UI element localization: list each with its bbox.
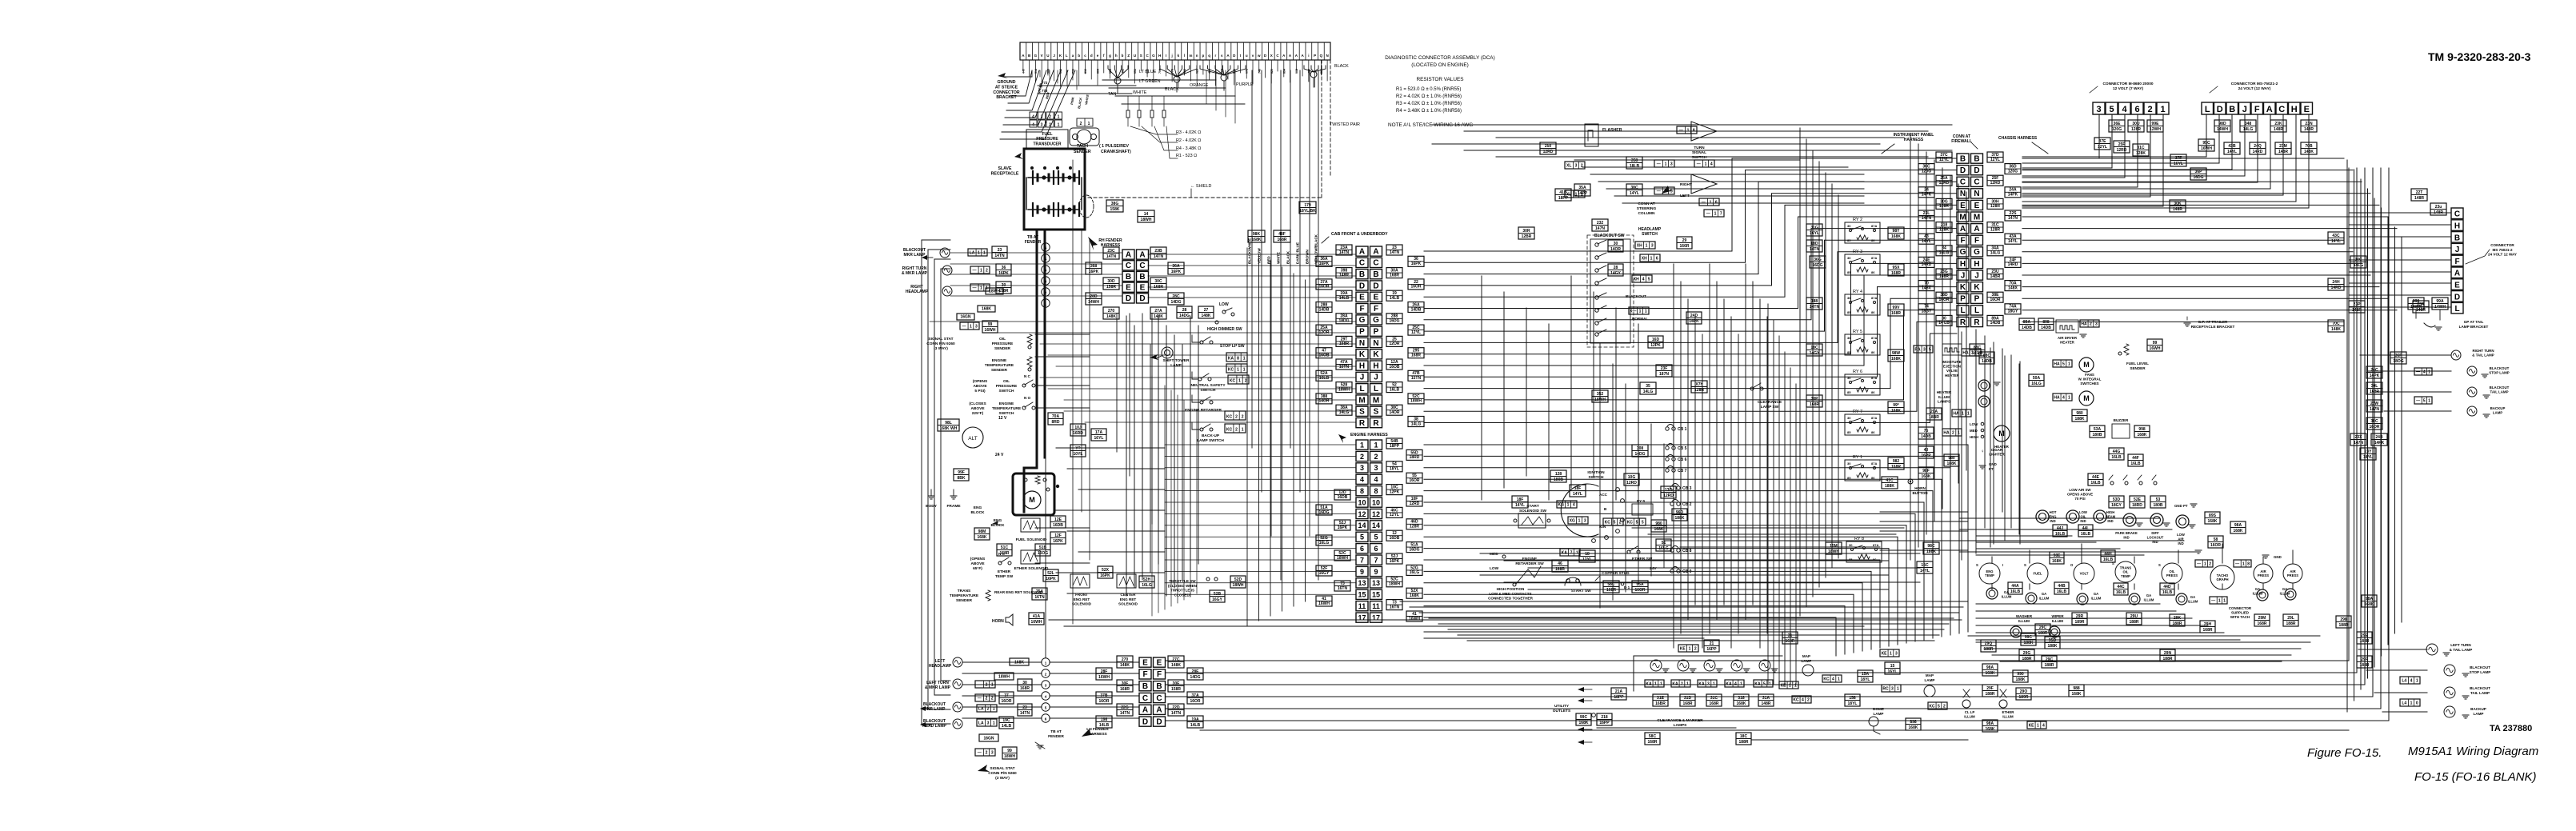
wire 58 box [2208, 536, 2223, 548]
connector XL 3 2 [1565, 162, 1585, 169]
svg-text:168R: 168R [1810, 402, 1819, 407]
gauge air press 2 [2283, 564, 2302, 583]
svg-text:308: 308 [1637, 446, 1644, 451]
wire bundle: indicator feeds [1976, 529, 2048, 530]
svg-text:18LB: 18LB [1630, 164, 1640, 169]
svg-text:29: 29 [1682, 238, 1687, 243]
value boxes right of engine columns [1386, 438, 1402, 449]
svg-text:CL LP: CL LP [1965, 710, 1975, 714]
svg-text:HOT: HOT [2050, 510, 2057, 514]
connector KE 1 2 [1678, 645, 1698, 652]
svg-text:GP AT TAIL: GP AT TAIL [2464, 320, 2484, 324]
svg-text:4: 4 [1642, 277, 1645, 282]
svg-text:1: 1 [1243, 356, 1246, 361]
svg-text:96D: 96D [1676, 510, 1684, 515]
svg-text:99A: 99A [2436, 299, 2444, 304]
front eng ret solenoid [1070, 574, 1090, 588]
svg-text:RY 6: RY 6 [1853, 370, 1862, 374]
svg-text:52L: 52L [1047, 571, 1054, 576]
wire bundle: firewall device verticals [1961, 332, 1962, 560]
wire 29C box 2 [2035, 624, 2050, 636]
svg-text:L: L [1066, 54, 1068, 58]
svg-text:KC: KC [1228, 367, 1234, 372]
svg-text:24H: 24H [2332, 280, 2340, 285]
svg-text:14GY: 14GY [1610, 271, 1621, 276]
svg-text:43C: 43C [2332, 234, 2340, 238]
svg-text:RY 2: RY 2 [1853, 218, 1862, 222]
svg-text:1: 1 [1242, 427, 1244, 432]
svg-text:5: 5 [2062, 362, 2065, 366]
svg-text:1: 1 [2037, 723, 2039, 728]
svg-text:1: 1 [1689, 646, 1691, 651]
svg-text:A: A [1139, 250, 1145, 259]
wire 88C box [1970, 344, 1985, 356]
svg-text:R2 - 4.02K Ω: R2 - 4.02K Ω [1176, 138, 1201, 143]
svg-text:D 1: D 1 [1624, 585, 1630, 589]
svg-text:RA: RA [1914, 347, 1921, 352]
svg-text:LEFT TURN: LEFT TURN [926, 681, 949, 685]
svg-text:ILLUM: ILLUM [2188, 599, 2198, 603]
svg-text:H: H [1373, 362, 1378, 370]
svg-text:RH FENDER: RH FENDER [1098, 238, 1122, 243]
svg-text:98A: 98A [1986, 721, 1994, 726]
connector - 2 3 [975, 749, 995, 756]
flasher [1585, 124, 1598, 146]
svg-text:INSTRUMENT PANEL: INSTRUMENT PANEL [1894, 133, 1934, 138]
svg-text:TAIL LAMP: TAIL LAMP [2490, 390, 2508, 394]
connector - 1 4 (ts) [1694, 160, 1714, 167]
relay RY 4 [1845, 294, 1880, 315]
svg-text:18YL/BK: 18YL/BK [1299, 209, 1316, 214]
svg-text:4: 4 [1374, 476, 1378, 484]
svg-text:LOW: LOW [2079, 510, 2087, 514]
moisture ejection valve heater [1945, 348, 1959, 352]
svg-text:F: F [1374, 305, 1378, 314]
svg-text:KE: KE [1680, 646, 1686, 651]
svg-text:F: F [2254, 105, 2260, 114]
svg-text:2: 2 [1245, 378, 1247, 383]
svg-text:24 V: 24 V [995, 453, 1004, 457]
svg-text:3: 3 [1041, 123, 1043, 128]
svg-text:10J: 10J [1074, 425, 1082, 430]
svg-text:XG: XG [1570, 518, 1575, 523]
relay RY 7 [1845, 414, 1880, 435]
svg-text:A: A [1960, 225, 1966, 234]
svg-text:C: C [1142, 694, 1148, 703]
svg-text:HARNESS: HARNESS [1904, 138, 1924, 142]
svg-text:16LB: 16LB [2090, 481, 2101, 485]
wire 29R box [2072, 613, 2087, 625]
battery terminal dots [1030, 166, 1034, 170]
svg-text:24D: 24D [1690, 314, 1698, 318]
wire 980 box 2 [1944, 454, 1959, 466]
wire bundle: bottom long horizontals [1166, 660, 2349, 661]
svg-text:99C: 99C [1580, 715, 1588, 720]
wires 772 773 [1038, 85, 1136, 86]
svg-text:BACKUP: BACKUP [2490, 406, 2506, 410]
svg-text:ABOVE: ABOVE [970, 406, 985, 411]
svg-text:j: j [1170, 54, 1172, 58]
svg-text:16PK: 16PK [1053, 539, 1063, 544]
wire 10J box [1070, 424, 1086, 436]
svg-text:14TN: 14TN [1154, 254, 1164, 259]
wire 22D box (lh) [1168, 704, 1184, 716]
svg-text:16WH: 16WH [1098, 675, 1110, 680]
svg-text:16LG: 16LG [1410, 570, 1420, 575]
svg-text:24V: 24V [1650, 566, 1657, 571]
relay RY8 [1846, 541, 1882, 562]
svg-text:E: E [1126, 284, 1131, 293]
svg-text:J: J [2455, 246, 2460, 254]
svg-text:HIGH: HIGH [2106, 510, 2114, 514]
tacho gnd 2 [2195, 549, 2202, 551]
svg-text:2: 2 [1619, 520, 1622, 525]
svg-text:FO-15 (FO-16 BLANK): FO-15 (FO-16 BLANK) [2414, 770, 2537, 784]
svg-text:189R: 189R [2075, 620, 2085, 625]
connector - 1 8 (tacho) [2234, 560, 2251, 567]
svg-text:147N: 147N [2354, 441, 2363, 445]
svg-text:168K: 168K [1737, 701, 1746, 706]
connector - 1 3 [960, 322, 979, 330]
svg-text:RED: RED [1267, 256, 1271, 264]
wire 51 box [1656, 539, 1671, 551]
wire 18WH box [986, 288, 1003, 294]
svg-text:HA: HA [1962, 350, 1969, 355]
wire 30F box (lh) [1117, 680, 1133, 692]
svg-text:30P: 30P [1811, 397, 1819, 402]
svg-text:ILLUM: ILLUM [2039, 596, 2050, 600]
svg-text:D: D [2217, 105, 2223, 114]
svg-text:E: E [1140, 284, 1146, 293]
svg-text:16WH: 16WH [1409, 617, 1420, 621]
svg-text:28D: 28D [1090, 294, 1098, 299]
svg-text:1: 1 [2223, 598, 2226, 603]
clearance lamp connectors [1645, 680, 1664, 687]
gauge oil press [2162, 563, 2182, 584]
washer wiper boxes [2021, 633, 2036, 645]
svg-text:746: 746 [1258, 69, 1261, 74]
engine harness pin columns [1356, 440, 1368, 449]
svg-text:ILLUM: ILLUM [2144, 597, 2154, 601]
ground symbol signal stat [1037, 745, 1043, 746]
wire bundle: middle verticals band B [1799, 128, 1801, 616]
wire 352 box [1592, 390, 1608, 402]
wire 18C box [1736, 733, 1751, 745]
svg-text:& MKR LAMP: & MKR LAMP [925, 685, 951, 690]
wire bundle: horizontal runs mid-left [930, 321, 1356, 322]
svg-text:86: 86 [1871, 270, 1875, 274]
svg-text:HORN: HORN [992, 619, 1004, 624]
svg-text:168K: 168K [1891, 234, 1901, 239]
wire 29B box right [2336, 616, 2351, 628]
svg-text:A: A [1974, 225, 1979, 234]
svg-text:4: 4 [2042, 723, 2045, 728]
svg-text:14: 14 [1144, 212, 1149, 217]
svg-text:14PP: 14PP [1578, 191, 1588, 196]
svg-text:KC: KC [1230, 378, 1236, 383]
svg-text:44G: 44G [2113, 449, 2121, 454]
clearance lamp wire boxes [1653, 694, 1668, 706]
svg-text:18PP: 18PP [1614, 695, 1624, 700]
svg-text:16PK: 16PK [1100, 573, 1110, 578]
svg-text:3: 3 [1923, 347, 1926, 352]
wire 29F box right2 [2357, 656, 2372, 668]
connector columns cab front & underbody [1356, 246, 1368, 256]
svg-text:35A: 35A [1578, 186, 1586, 190]
svg-text:KA: KA [1698, 681, 1705, 686]
svg-text:THROTTLE IS: THROTTLE IS [1170, 589, 1194, 593]
svg-text:158R: 158R [999, 289, 1009, 294]
svg-text:120G: 120G [2008, 169, 2018, 174]
svg-text:HA: HA [2054, 362, 2060, 366]
svg-text:16D: 16D [1652, 338, 1660, 342]
battery bank lower [1028, 209, 1079, 210]
wire bundle: TB fender vertical [1045, 306, 1046, 657]
svg-text:1: 1 [1714, 211, 1717, 216]
svg-text:44C: 44C [2117, 585, 2125, 589]
svg-text:70 PSI: 70 PSI [2074, 497, 2085, 501]
wire 16D box (hs) [1648, 336, 1663, 348]
svg-text:1: 1 [1958, 430, 1960, 435]
svg-text:180B: 180B [1554, 477, 1563, 482]
svg-text:4: 4 [1032, 123, 1034, 128]
svg-text:16PK: 16PK [1046, 577, 1056, 581]
svg-text:87A: 87A [1871, 224, 1877, 228]
svg-text:3: 3 [1891, 686, 1894, 691]
svg-text:30C: 30C [1154, 279, 1162, 284]
svg-text:IGNITION: IGNITION [1587, 470, 1605, 475]
svg-text:16LG: 16LG [1319, 541, 1330, 545]
svg-text:AIR DRYER: AIR DRYER [2058, 336, 2078, 340]
svg-text:M: M [1358, 396, 1365, 405]
svg-text:188R: 188R [1739, 740, 1749, 745]
svg-text:1: 1 [1238, 378, 1241, 383]
blackout tail lamp [2444, 687, 2455, 698]
svg-text:HEADLAMP: HEADLAMP [1638, 227, 1662, 232]
svg-text:ILLUM: ILLUM [1938, 395, 1950, 399]
svg-text:L: L [2205, 105, 2210, 114]
svg-text:3: 3 [2096, 105, 2101, 114]
svg-text:358: 358 [1631, 158, 1638, 163]
connector KE 1 3 [1880, 649, 1899, 657]
svg-text:29F: 29F [1986, 686, 1994, 691]
svg-text:LOW: LOW [1219, 302, 1229, 307]
svg-text:KA: KA [1726, 681, 1732, 686]
svg-text:g: g [1109, 54, 1111, 58]
svg-text:LAMP: LAMP [1170, 363, 1182, 368]
svg-text:2: 2 [1581, 163, 1583, 168]
svg-text:HEADLAMP: HEADLAMP [929, 664, 952, 669]
svg-text:BACK-UP: BACK-UP [1202, 433, 1220, 438]
vertical drops from MS connector [2206, 114, 2207, 157]
svg-text:29H: 29H [2204, 622, 2212, 627]
svg-text:I: I [1166, 54, 1166, 58]
wire 29N box [2160, 649, 2175, 661]
wire: horn long run [1049, 619, 1962, 621]
svg-text:& TAIL LAMP: & TAIL LAMP [2472, 354, 2494, 358]
svg-text:16OR: 16OR [1098, 699, 1109, 704]
svg-text:FRAME: FRAME [946, 504, 961, 509]
svg-text:8: 8 [1360, 487, 1364, 495]
svg-text:44A: 44A [2011, 584, 2019, 589]
svg-text:2: 2 [1049, 115, 1051, 120]
wire 44H box [2101, 550, 2115, 562]
svg-text:LOCKOUT: LOCKOUT [2147, 535, 2164, 539]
svg-text:G: G [1152, 54, 1155, 58]
svg-text:30F: 30F [1122, 681, 1129, 686]
svg-text:FUEL LEVEL: FUEL LEVEL [2126, 362, 2149, 366]
fuel pressure transducer [1026, 130, 1068, 149]
clearance lamps [1650, 660, 1662, 671]
svg-text:RETARDER SW: RETARDER SW [1515, 561, 1544, 566]
svg-text:J: J [1974, 271, 1979, 280]
svg-text:11: 11 [1372, 602, 1380, 610]
wire 23C box [1103, 247, 1119, 259]
wire 19C box lower [999, 717, 1014, 729]
svg-text:672: 672 [1246, 69, 1249, 74]
svg-text:168K: 168K [1986, 727, 1995, 732]
svg-text:14YL: 14YL [1920, 569, 1930, 573]
svg-text:14DG: 14DG [1634, 452, 1645, 457]
low air switches [2110, 481, 2114, 485]
svg-text:85: 85 [1847, 430, 1851, 434]
svg-text:FLASHER: FLASHER [1602, 128, 1622, 133]
svg-text:PRESS: PRESS [2287, 573, 2298, 577]
svg-text:LOW: LOW [2177, 533, 2185, 537]
svg-text:1: 1 [993, 721, 995, 725]
svg-text:37E: 37E [2099, 139, 2107, 144]
wire 29F box [1982, 685, 1998, 697]
svg-text:1: 1 [1665, 162, 1667, 166]
svg-text:CB 1: CB 1 [1678, 427, 1687, 432]
wire 98L box [938, 419, 959, 431]
wire bundle: DCA strip to mid verticals [1206, 70, 1207, 104]
svg-text:—: — [2211, 598, 2215, 603]
svg-text:BLACKOUT: BLACKOUT [923, 702, 946, 707]
connector HA 1 1 [1952, 410, 1971, 417]
wire 99A box right [2362, 595, 2377, 607]
wire 23 box lower [1018, 704, 1032, 716]
blackout stop lamp [2444, 665, 2455, 676]
svg-text:ILLUM: ILLUM [2018, 619, 2030, 623]
svg-text:16YL: 16YL [2174, 162, 2183, 166]
svg-text:H: H [2454, 222, 2460, 231]
svg-text:h: h [1115, 54, 1118, 58]
air dryer heater [2056, 320, 2078, 333]
wire 98E box [2050, 552, 2064, 564]
wire 53A box [2090, 425, 2105, 437]
value boxes left of engine columns [1334, 489, 1350, 500]
connector -A box u2 [2414, 397, 2432, 404]
svg-text:LAMP: LAMP [2473, 712, 2483, 716]
ignition terminals [1616, 488, 1620, 492]
svg-text:G: G [1974, 248, 1980, 257]
vertical bundle to top connectors [2098, 114, 2100, 158]
wire bundle: verticals below headlamp switch [1481, 276, 1482, 500]
svg-text:PT: PT [1989, 467, 1994, 471]
svg-text:8: 8 [1374, 487, 1378, 495]
svg-text:53D: 53D [2113, 497, 2121, 502]
svg-text:1: 1 [1567, 502, 1570, 507]
svg-text:R: R [1974, 318, 1980, 327]
svg-text:l: l [1184, 54, 1185, 58]
wire 30 box (hs) [1608, 240, 1623, 252]
svg-text:LAMP BRACKET: LAMP BRACKET [2459, 325, 2489, 329]
svg-text:1: 1 [1789, 683, 1791, 688]
svg-text:968: 968 [1295, 69, 1298, 74]
svg-text:16DG: 16DG [1409, 547, 1419, 552]
svg-text:FENDER: FENDER [1048, 734, 1064, 739]
svg-text:3: 3 [1895, 651, 1898, 656]
svg-text:TRANSDUCER: TRANSDUCER [1034, 142, 1062, 146]
svg-text:1: 1 [1890, 651, 1892, 656]
svg-text:12E: 12E [1054, 517, 1062, 522]
svg-text:148K: 148K [1106, 314, 1116, 319]
svg-text:3: 3 [1360, 464, 1364, 472]
svg-text:—: — [2416, 398, 2420, 403]
svg-text:6: 6 [1360, 545, 1364, 553]
svg-text:53: 53 [2156, 497, 2161, 502]
svg-text:3: 3 [1651, 243, 1654, 248]
svg-text:12 VOLT (7 WAY): 12 VOLT (7 WAY) [2113, 86, 2144, 91]
svg-text:18WH: 18WH [1141, 218, 1152, 222]
svg-text:148R: 148R [2414, 196, 2424, 201]
svg-text:128: 128 [1555, 472, 1562, 477]
svg-text:30: 30 [1847, 256, 1851, 260]
svg-text:128R: 128R [2131, 127, 2141, 132]
svg-text:KC: KC [1823, 677, 1830, 681]
wire 358 box [1626, 157, 1642, 169]
slave receptacle battery box [1024, 149, 1085, 230]
wire 998 box [2134, 425, 2150, 437]
svg-text:M: M [1998, 429, 2005, 437]
svg-text:41B: 41B [1559, 190, 1567, 195]
svg-text:G: G [1960, 248, 1966, 257]
svg-text:1: 1 [970, 324, 972, 329]
svg-text:R3 - 4.02K Ω: R3 - 4.02K Ω [1176, 130, 1201, 135]
svg-text:15M: 15M [1830, 544, 1838, 549]
wire 898 box (map) [1906, 718, 1921, 730]
connector - 1 7 (ts) [1704, 210, 1724, 217]
wire 23Y box [2360, 448, 2376, 460]
svg-text:BODY: BODY [926, 504, 938, 509]
svg-text:2: 2 [2147, 105, 2152, 114]
svg-text:1: 1 [1967, 411, 1970, 416]
svg-text:MKR LAMP: MKR LAMP [904, 253, 926, 258]
svg-text:14YL: 14YL [2331, 239, 2341, 244]
svg-text:168R: 168R [1120, 687, 1130, 692]
svg-text:SIGNAL: SIGNAL [1692, 150, 1706, 155]
wire 15C box [1917, 561, 1933, 573]
svg-text:KE: KE [1882, 651, 1888, 656]
svg-text:P: P [1974, 295, 1980, 304]
svg-text:17: 17 [1358, 613, 1366, 621]
svg-text:87A: 87A [1871, 296, 1877, 300]
wire 55A box [1632, 581, 1648, 593]
svg-text:N O: N O [1024, 396, 1031, 400]
wire 53 box [2150, 496, 2166, 508]
svg-text:OUTLETS: OUTLETS [1553, 709, 1571, 713]
svg-text:HEATER: HEATER [1937, 390, 1952, 394]
fuel pressure transducer pin boxes [1030, 112, 1037, 119]
svg-text:168R: 168R [1891, 465, 1901, 469]
svg-text:4: 4 [2122, 105, 2127, 114]
svg-text:SUPPLIED: SUPPLIED [2231, 611, 2249, 615]
svg-text:6: 6 [1656, 256, 1658, 261]
svg-text:14YL: 14YL [2008, 239, 2018, 244]
svg-text:14DG: 14DG [1190, 675, 1200, 680]
wire 99 box lower [1002, 747, 1017, 759]
